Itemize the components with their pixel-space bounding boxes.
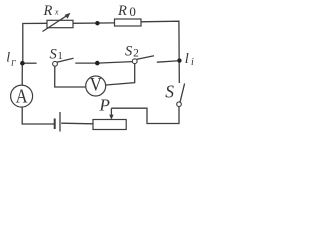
svg-text:i: i [191,57,194,68]
svg-text:S: S [125,44,133,60]
svg-text:Γ: Γ [10,58,17,68]
svg-text:R: R [43,3,53,19]
svg-text:P: P [99,96,110,115]
svg-text:0: 0 [129,4,136,19]
svg-text:l: l [185,51,189,67]
svg-text:S: S [165,81,174,101]
svg-text:l: l [6,51,10,66]
svg-text:2: 2 [133,47,139,59]
svg-text:V: V [90,74,102,95]
svg-text:1: 1 [58,51,63,62]
svg-text:R: R [117,3,127,19]
svg-text:A: A [16,85,28,107]
svg-text:S: S [50,47,58,63]
svg-text:x: x [54,7,59,16]
